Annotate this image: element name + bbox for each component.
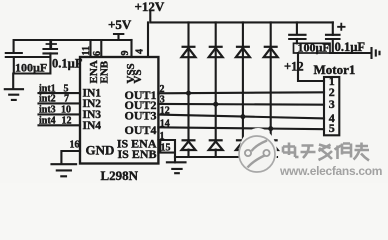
svg-text:VS: VS (132, 69, 144, 83)
svg-text:GND: GND (86, 143, 115, 158)
svg-text:14: 14 (160, 119, 170, 130)
svg-text:10: 10 (61, 104, 71, 115)
svg-text:1: 1 (160, 131, 165, 142)
svg-text:3: 3 (329, 97, 335, 111)
svg-text:12: 12 (62, 115, 72, 126)
svg-text:0.1µF: 0.1µF (335, 40, 366, 54)
svg-text:OUT4: OUT4 (124, 123, 156, 137)
svg-text:+5V: +5V (108, 17, 132, 32)
svg-text:6: 6 (92, 51, 103, 56)
svg-text:int3: int3 (39, 104, 56, 115)
svg-text:12: 12 (160, 106, 170, 117)
svg-text:100µF: 100µF (15, 61, 47, 75)
svg-text:+12: +12 (284, 60, 304, 74)
svg-text:+12V: +12V (135, 0, 165, 14)
svg-text:4: 4 (135, 49, 146, 54)
svg-text:int4: int4 (39, 115, 56, 126)
svg-text:100µF: 100µF (298, 40, 330, 54)
svg-text:2: 2 (160, 84, 165, 95)
svg-text:OUT3: OUT3 (124, 108, 156, 122)
svg-text:5: 5 (329, 121, 335, 135)
svg-text:7: 7 (64, 94, 69, 105)
svg-text:int2: int2 (39, 94, 56, 105)
svg-text:11: 11 (81, 46, 92, 55)
svg-text:0.1µF: 0.1µF (52, 57, 83, 71)
svg-text:IN4: IN4 (83, 120, 102, 132)
svg-text:15: 15 (161, 142, 171, 153)
svg-text:L298N: L298N (101, 168, 139, 183)
svg-text:www.elecfans.com: www.elecfans.com (279, 164, 382, 178)
svg-text:ENB: ENB (98, 60, 110, 83)
svg-text:IS ENB: IS ENB (117, 147, 156, 161)
svg-text:9: 9 (120, 51, 131, 56)
svg-text:16: 16 (70, 139, 80, 150)
svg-text:3: 3 (160, 95, 165, 106)
